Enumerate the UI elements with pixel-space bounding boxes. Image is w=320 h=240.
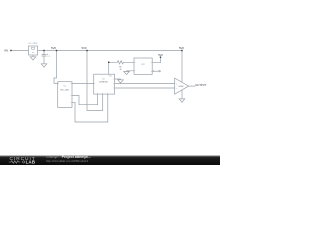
svg-text:5V0: 5V0 bbox=[51, 46, 56, 50]
svg-text:ATMEGA: ATMEGA bbox=[99, 80, 108, 83]
svg-text:5V0: 5V0 bbox=[82, 46, 87, 50]
svg-text:MIC-2832: MIC-2832 bbox=[60, 89, 70, 91]
svg-text:http://circuitlab.com/c8b5mdwr: http://circuitlab.com/c8b5mdwr4 bbox=[46, 159, 89, 163]
svg-text:1k: 1k bbox=[120, 69, 122, 71]
svg-text:5V0: 5V0 bbox=[179, 46, 184, 50]
svg-text:OUTPUT: OUTPUT bbox=[195, 83, 206, 87]
svg-text:VIN: VIN bbox=[4, 49, 8, 52]
svg-text:LM386: LM386 bbox=[178, 86, 183, 88]
svg-text:LAB: LAB bbox=[26, 160, 36, 165]
svg-text:U1 L7805: U1 L7805 bbox=[29, 43, 39, 45]
svg-text:IC1: IC1 bbox=[63, 85, 66, 87]
svg-text:5V0: 5V0 bbox=[158, 53, 163, 57]
